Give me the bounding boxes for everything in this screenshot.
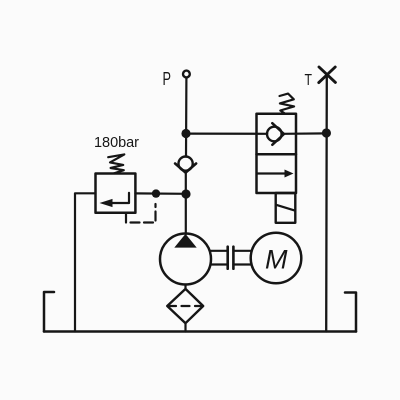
port P circle bbox=[183, 71, 190, 78]
filter F1 diamond bbox=[167, 289, 203, 323]
wire valve to T line bbox=[284, 132, 326, 135]
filter F1 element dashed bbox=[168, 305, 203, 307]
junction dot pilot tap bbox=[152, 189, 160, 197]
valve V2 upper body bbox=[257, 114, 297, 154]
motor M1 circle bbox=[251, 233, 302, 284]
pump P1 outlet triangle bbox=[174, 234, 196, 248]
wire horizontal P to valve bbox=[186, 133, 267, 135]
tank left hook bbox=[44, 292, 54, 332]
relief valve V1 setting label 180bar bbox=[94, 135, 139, 151]
node P label bbox=[163, 69, 172, 89]
tank right hook bbox=[345, 293, 356, 332]
solenoid S1 diagonal bbox=[276, 205, 296, 211]
check valve CV1 circle bbox=[179, 157, 193, 171]
shaft motor side bbox=[233, 250, 251, 252]
solenoid S1 body bbox=[276, 193, 296, 223]
wire filter to tank bbox=[184, 323, 186, 331]
svg-text:T: T bbox=[305, 72, 313, 89]
coupling bars bbox=[226, 247, 229, 269]
node T label bbox=[305, 72, 313, 89]
svg-text:180bar: 180bar bbox=[94, 135, 139, 151]
check valve CV1 seat bbox=[175, 164, 196, 173]
valve V2 lower body bbox=[257, 154, 297, 193]
svg-text:M: M bbox=[265, 245, 288, 275]
junction dot P branch bbox=[181, 129, 190, 138]
valve V2 check circle bbox=[267, 127, 282, 142]
relief valve V1 spring bbox=[108, 154, 124, 173]
valve V2 spring bbox=[280, 94, 295, 114]
relief valve V1 internal arrow bbox=[111, 193, 129, 203]
wire T line vertical bbox=[325, 75, 328, 332]
wire pump to filter bbox=[184, 285, 186, 290]
wire relief valve to pump line bbox=[135, 192, 186, 195]
port T plug X bbox=[319, 67, 335, 82]
pump P1 circle bbox=[160, 234, 211, 285]
pilot line dashed bbox=[126, 204, 156, 223]
junction dot pump line / relief line bbox=[181, 189, 190, 198]
wire relief valve left port to tank bbox=[75, 193, 96, 331]
svg-text:P: P bbox=[163, 69, 172, 89]
valve V2 check seat bbox=[272, 123, 284, 145]
junction dot T line bbox=[322, 128, 331, 137]
valve V2 lower arrow bbox=[258, 172, 287, 174]
tank base line bbox=[44, 330, 356, 333]
shaft pump side bbox=[211, 250, 228, 252]
relief valve V1 body bbox=[96, 174, 136, 213]
wire P line vertical bbox=[185, 78, 188, 157]
motor M1 label bbox=[265, 245, 288, 275]
wire CV1 to pump bbox=[185, 173, 187, 234]
